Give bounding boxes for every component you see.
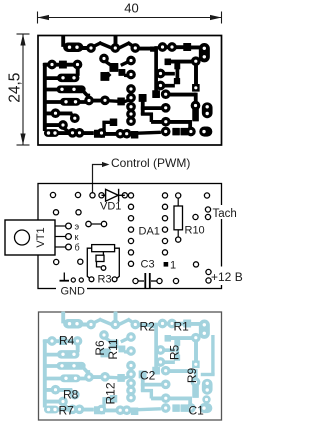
svg-text:DA1: DA1 [139,226,160,238]
svg-text:R9: R9 [185,368,199,384]
svg-text:C1: C1 [189,404,205,418]
svg-text:R1: R1 [174,320,190,334]
IC DA1 pads [128,193,167,267]
board outline bottom panel [39,312,222,420]
pin 1 mark [164,262,169,267]
svg-text:24,5: 24,5 [7,73,24,103]
svg-text:R6: R6 [93,340,107,356]
svg-text:э: э [75,222,80,232]
svg-text:1: 1 [170,260,176,272]
svg-text:R3: R3 [98,274,112,286]
holes middle panel [50,192,211,283]
svg-text:Control (PWM): Control (PWM) [111,156,190,170]
transistor VT1 [5,220,55,255]
copper artwork (black) [43,36,212,139]
svg-text:R10: R10 [185,225,205,237]
control (PWM) arrow [93,165,105,195]
dimension line vertical [17,34,30,145]
white gaps for labels on border [56,283,87,294]
svg-text:к: к [75,232,79,242]
VT1 pin к [55,236,66,238]
svg-text:б: б [75,243,80,253]
svg-text:GND: GND [61,286,86,298]
board outline middle panel [38,184,222,289]
jumper wire [89,223,105,225]
VT1 pin б [55,246,66,248]
svg-text:+12 В: +12 В [211,270,243,284]
svg-text:VT1: VT1 [35,227,47,247]
svg-text:R12: R12 [104,382,118,404]
svg-text:Tach: Tach [213,208,237,220]
diode VD1 [102,189,125,202]
svg-text:R4: R4 [59,334,75,348]
svg-text:VD1: VD1 [100,201,121,213]
ground symbol [60,273,70,281]
board outline top panel [38,36,222,146]
svg-text:40: 40 [124,1,138,16]
svg-text:R2: R2 [140,320,156,334]
dimension line horizontal [38,12,222,24]
svg-text:R11: R11 [106,338,120,359]
svg-text:R8: R8 [63,388,79,402]
svg-text:R5: R5 [168,345,182,361]
svg-text:R7: R7 [59,404,75,418]
resistor R10 [174,193,183,242]
VT1 pin э [55,225,66,227]
wire bottom-panel extra right vertical [201,335,215,404]
svg-text:C2: C2 [140,369,156,383]
copper artwork (blue) [43,312,212,415]
svg-text:C3: C3 [141,259,155,271]
trimmer R3 [87,245,119,279]
